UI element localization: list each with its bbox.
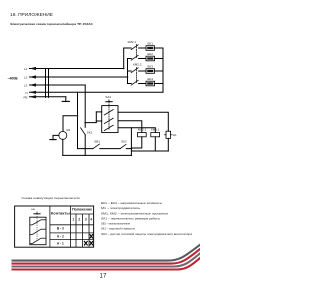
contactor contact KM2.1-a (131, 45, 146, 50)
wire L2 riser (128, 59, 132, 84)
wire N (30, 91, 164, 93)
svg-text:А - 2: А - 2 (57, 234, 64, 238)
table row dividers (50, 232, 94, 234)
contactor contact KM2.2-a (131, 68, 146, 73)
wire L3 drop (84, 85, 86, 127)
switch drawing SA1 in table (30, 208, 46, 245)
table header split (71, 213, 94, 215)
svg-text:PE: PE (24, 95, 28, 99)
svg-text:~400В: ~400В (8, 77, 19, 81)
wire vertical tap B (48, 69, 50, 98)
arrow L1 (29, 67, 36, 70)
svg-text:Схема коммутации переключателя: Схема коммутации переключателя (22, 196, 80, 200)
svg-text:КМ2.2: КМ2.2 (133, 62, 142, 66)
svg-text:КМ2.1: КМ2.1 (138, 128, 147, 132)
wire vertical tap A (45, 69, 47, 98)
selector switch SA1 (102, 95, 118, 133)
footer stripes (12, 244, 202, 270)
wire L1 (30, 68, 124, 70)
wire EK4 out (155, 83, 164, 85)
svg-text:ЕК1 – ЕК4 – нагревательные эле: ЕК1 – ЕК4 – нагревательные элементы (101, 201, 162, 205)
heater EK3 (146, 65, 155, 74)
wire heater return bus (162, 48, 164, 92)
legend (101, 201, 193, 236)
svg-text:ЕК3: ЕК3 (148, 65, 154, 69)
svg-text:М1 – электродвигатель: М1 – электродвигатель (101, 206, 141, 210)
wire N drop (78, 92, 94, 148)
heater EK1 (146, 42, 155, 51)
wire L3 (30, 84, 86, 86)
coil KM2 (138, 128, 147, 137)
svg-text:L3: L3 (24, 84, 28, 88)
svg-text:17: 17 (100, 273, 107, 280)
svg-text:SK2 – датчик тепловой защиты э: SK2 – датчик тепловой защиты электродвиг… (101, 232, 193, 236)
wire M1 to rail (62, 139, 64, 155)
svg-text:18. ПРИЛОЖЕНИЕ: 18. ПРИЛОЖЕНИЕ (10, 12, 53, 17)
wire PE (30, 96, 66, 98)
table col dividers (75, 214, 77, 247)
wire SK1 down (84, 135, 86, 156)
thermostat SK2 (120, 140, 127, 149)
wire EK3 out (155, 70, 164, 72)
table divider switch/contacts (49, 206, 51, 247)
svg-text:SK2: SK2 (121, 140, 127, 144)
heater EK4 (146, 77, 155, 86)
wire SK2 out (126, 148, 131, 150)
svg-text:SA1: SA1 (105, 95, 111, 99)
svg-text:L1: L1 (24, 67, 28, 71)
wire riser junction (130, 128, 132, 156)
svg-text:ЕК2: ЕК2 (148, 52, 154, 56)
wire EK1 out (155, 47, 164, 49)
linkage dashed KM2.1 (136, 45, 138, 58)
wire L1 riser (124, 48, 132, 69)
wire L2 (30, 76, 128, 78)
wire SA1 feed tap (85, 112, 96, 123)
svg-text:SB1 – кнопка включения: SB1 – кнопка включения (101, 222, 131, 226)
wire EK2 out (155, 58, 164, 60)
wire SA1 out 1 (118, 112, 168, 131)
svg-text:SA1 – переключатель режимов ра: SA1 – переключатель режимов работы (101, 217, 160, 221)
wire KM1 return (154, 137, 156, 151)
table header bottom (50, 224, 94, 226)
svg-text:2: 2 (78, 218, 80, 222)
button SB1 (93, 140, 100, 149)
svg-text:L2: L2 (24, 76, 28, 80)
wire SA1 input 1 (96, 111, 101, 113)
wire SA1 out 3 (118, 128, 155, 133)
arrow L3 (29, 83, 36, 86)
svg-text:N: N (26, 91, 28, 95)
wire SA1 out 2 (118, 121, 142, 133)
arrow L2 (29, 75, 36, 78)
svg-text:4: 4 (90, 218, 92, 222)
ground M1 (50, 135, 59, 139)
svg-text:Положение: Положение (72, 208, 92, 212)
svg-text:SK1 – защитный термостат: SK1 – защитный термостат (101, 227, 136, 231)
wire return collector (131, 150, 168, 152)
svg-text:КМ1.1: КМ1.1 (151, 128, 160, 132)
junction dots (77, 68, 133, 150)
ground PE (62, 97, 69, 102)
coil KM1 (151, 128, 160, 137)
thermostat SK1 (81, 128, 93, 135)
heater EK2 (146, 52, 155, 61)
table frame (15, 206, 94, 247)
contactor contact KM2.1-b (131, 55, 146, 60)
arrow PE (29, 95, 36, 98)
svg-text:ЕК1: ЕК1 (148, 42, 154, 46)
svg-text:ЕК4: ЕК4 (148, 77, 154, 81)
lamp HL (164, 131, 177, 138)
wire contact3 feed (128, 70, 132, 72)
svg-text:КМ2.1: КМ2.1 (128, 40, 137, 44)
svg-text:А - 1: А - 1 (57, 241, 64, 245)
svg-text:1: 1 (72, 218, 74, 222)
svg-text:3: 3 (85, 218, 87, 222)
svg-text:М1: М1 (66, 128, 70, 132)
wire SB1-SK2 (100, 148, 120, 150)
wire bottom rail (63, 154, 132, 156)
wire SA1 input 2 (96, 120, 101, 122)
table divider contacts/positions (70, 206, 72, 247)
svg-text:SB1: SB1 (94, 140, 100, 144)
motor M1 (59, 128, 71, 139)
wire M1 branch (63, 116, 78, 132)
svg-text:Электрическая схема термоконте: Электрическая схема термоконтейнера ТР-1… (10, 22, 94, 26)
wire HL return (167, 138, 169, 151)
svg-text:В - 3: В - 3 (57, 227, 64, 231)
wire KM2 return (131, 137, 141, 148)
svg-text:КМ1, КМ2 – электромагнитные пу: КМ1, КМ2 – электромагнитные пускатели (101, 211, 169, 215)
svg-text:Контакты: Контакты (51, 211, 70, 215)
svg-text:SK1: SK1 (87, 131, 93, 135)
X marks (84, 234, 93, 245)
linkage dashed KM2.2 (136, 68, 138, 83)
arrow N (29, 91, 36, 94)
svg-text:HL: HL (173, 133, 177, 137)
contactor contact KM2.2-b (131, 80, 146, 85)
